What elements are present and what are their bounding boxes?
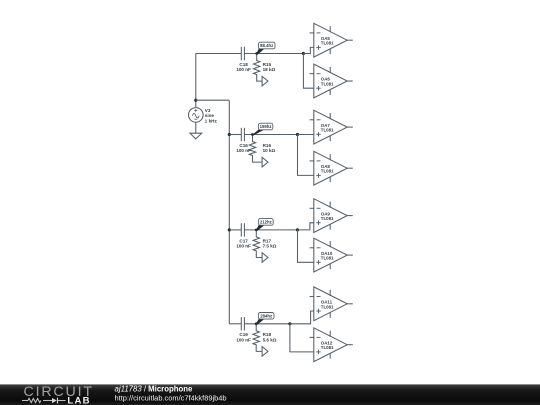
wire stage 1 node (244, 53, 303, 55)
wire stage 2 node (244, 134, 297, 136)
wire stage 4 input (229, 323, 241, 325)
footer bar (0, 384, 540, 405)
op-amp OA9 TL081 (310, 199, 353, 233)
node right-bus tap stage 3 (228, 228, 231, 231)
node stage 3 split junction (296, 228, 299, 231)
wire to OA6 + (303, 54, 313, 89)
node stage 3 filter node (255, 229, 258, 232)
svg-text:100 nF: 100 nF (236, 337, 251, 342)
CircuitLab logo (22, 384, 94, 405)
svg-text:sine: sine (205, 113, 215, 118)
wire stage 3 node (244, 229, 297, 231)
resistor R18 5.6 kΩ (253, 324, 277, 352)
wire to OA8 + (298, 135, 314, 176)
voltage source V3 (sine 1 kHz) (189, 100, 218, 133)
wire to OA11 + (290, 311, 314, 324)
svg-text:TL081: TL081 (321, 128, 334, 133)
node label 212hz (256, 219, 274, 231)
resistor R15 18 kΩ (254, 54, 276, 82)
svg-text:10 kΩ: 10 kΩ (263, 148, 276, 153)
capacitor C18 100 nF (236, 47, 251, 72)
wire stage 1 input (196, 53, 242, 55)
footer title text (115, 384, 194, 393)
svg-text:TL081: TL081 (321, 256, 334, 261)
svg-text:TL081: TL081 (321, 304, 334, 309)
node stage 2 filter node (251, 133, 254, 136)
wire stage 4 node (244, 323, 290, 325)
svg-text:aj11783 / Microphone: aj11783 / Microphone (115, 384, 194, 393)
node stage 2 split junction (296, 133, 299, 136)
node label 88.4hz (256, 42, 275, 54)
node flag stage 1 (262, 76, 268, 86)
wire right bus (228, 100, 230, 324)
svg-text:88.4hz: 88.4hz (260, 43, 273, 48)
svg-text:100 nF: 100 nF (236, 148, 251, 153)
svg-text:159hz: 159hz (260, 124, 272, 129)
svg-text:TL081: TL081 (321, 82, 334, 87)
svg-text:18 kΩ: 18 kΩ (263, 67, 276, 72)
svg-text:100 nF: 100 nF (236, 67, 251, 72)
resistor R16 10 kΩ (249, 135, 275, 163)
op-amp OA11 TL081 (310, 287, 353, 321)
node stage 4 filter node (255, 322, 258, 325)
svg-text:TL081: TL081 (321, 41, 334, 46)
capacitor C19 100 nF (236, 317, 251, 342)
svg-text:http://circuitlab.com/c7f4kkf8: http://circuitlab.com/c7f4kkf89jb4b (115, 393, 227, 402)
svg-text:100 nF: 100 nF (236, 244, 251, 249)
svg-text:LAB: LAB (67, 396, 90, 405)
svg-text:212hz: 212hz (260, 220, 272, 225)
op-amp OA7 TL081 (310, 110, 353, 144)
node flag stage 3 (262, 253, 268, 263)
node right-bus tap stage 2 (228, 133, 231, 136)
op-amp OA10 TL081 (310, 238, 353, 272)
node label 159hz (252, 123, 273, 135)
wire to OA12 + (290, 324, 314, 352)
svg-text:TL081: TL081 (321, 216, 334, 221)
op-amp OA12 TL081 (310, 328, 353, 362)
wire to OA5 + (303, 47, 313, 53)
node stage 1 filter node (255, 52, 258, 55)
op-amp OA6 TL081 (310, 64, 353, 98)
capacitor C17 100 nF (236, 223, 251, 248)
svg-text:7.5 kΩ: 7.5 kΩ (263, 244, 277, 249)
node flag stage 2 (262, 157, 268, 167)
node stage 4 split junction (288, 322, 291, 325)
node label 284hz (256, 313, 275, 325)
ground (190, 133, 202, 139)
svg-text:284hz: 284hz (260, 314, 272, 319)
wire left bus (195, 54, 197, 101)
svg-text:1 kHz: 1 kHz (205, 119, 218, 124)
capacitor C16 100 nF (236, 128, 251, 153)
wire stage 2 input (229, 134, 241, 136)
resistor R17 7.5 kΩ (253, 230, 277, 258)
wire to OA10 + (298, 230, 314, 262)
svg-text:V3: V3 (205, 108, 211, 113)
svg-text:TL081: TL081 (321, 169, 334, 174)
op-amp OA8 TL081 (310, 151, 353, 185)
node source junction (194, 99, 197, 102)
op-amp OA5 TL081 (310, 23, 353, 57)
wire stage 3 input (229, 229, 241, 231)
wire to OA7 + (298, 134, 314, 136)
wire source to right bus (196, 99, 230, 101)
node flag stage 4 (262, 347, 268, 357)
svg-text:TL081: TL081 (321, 345, 334, 350)
wire to OA9 + (298, 223, 314, 230)
footer url text (115, 393, 227, 402)
svg-text:5.6 kΩ: 5.6 kΩ (263, 337, 277, 342)
node stage 1 split junction (302, 52, 305, 55)
